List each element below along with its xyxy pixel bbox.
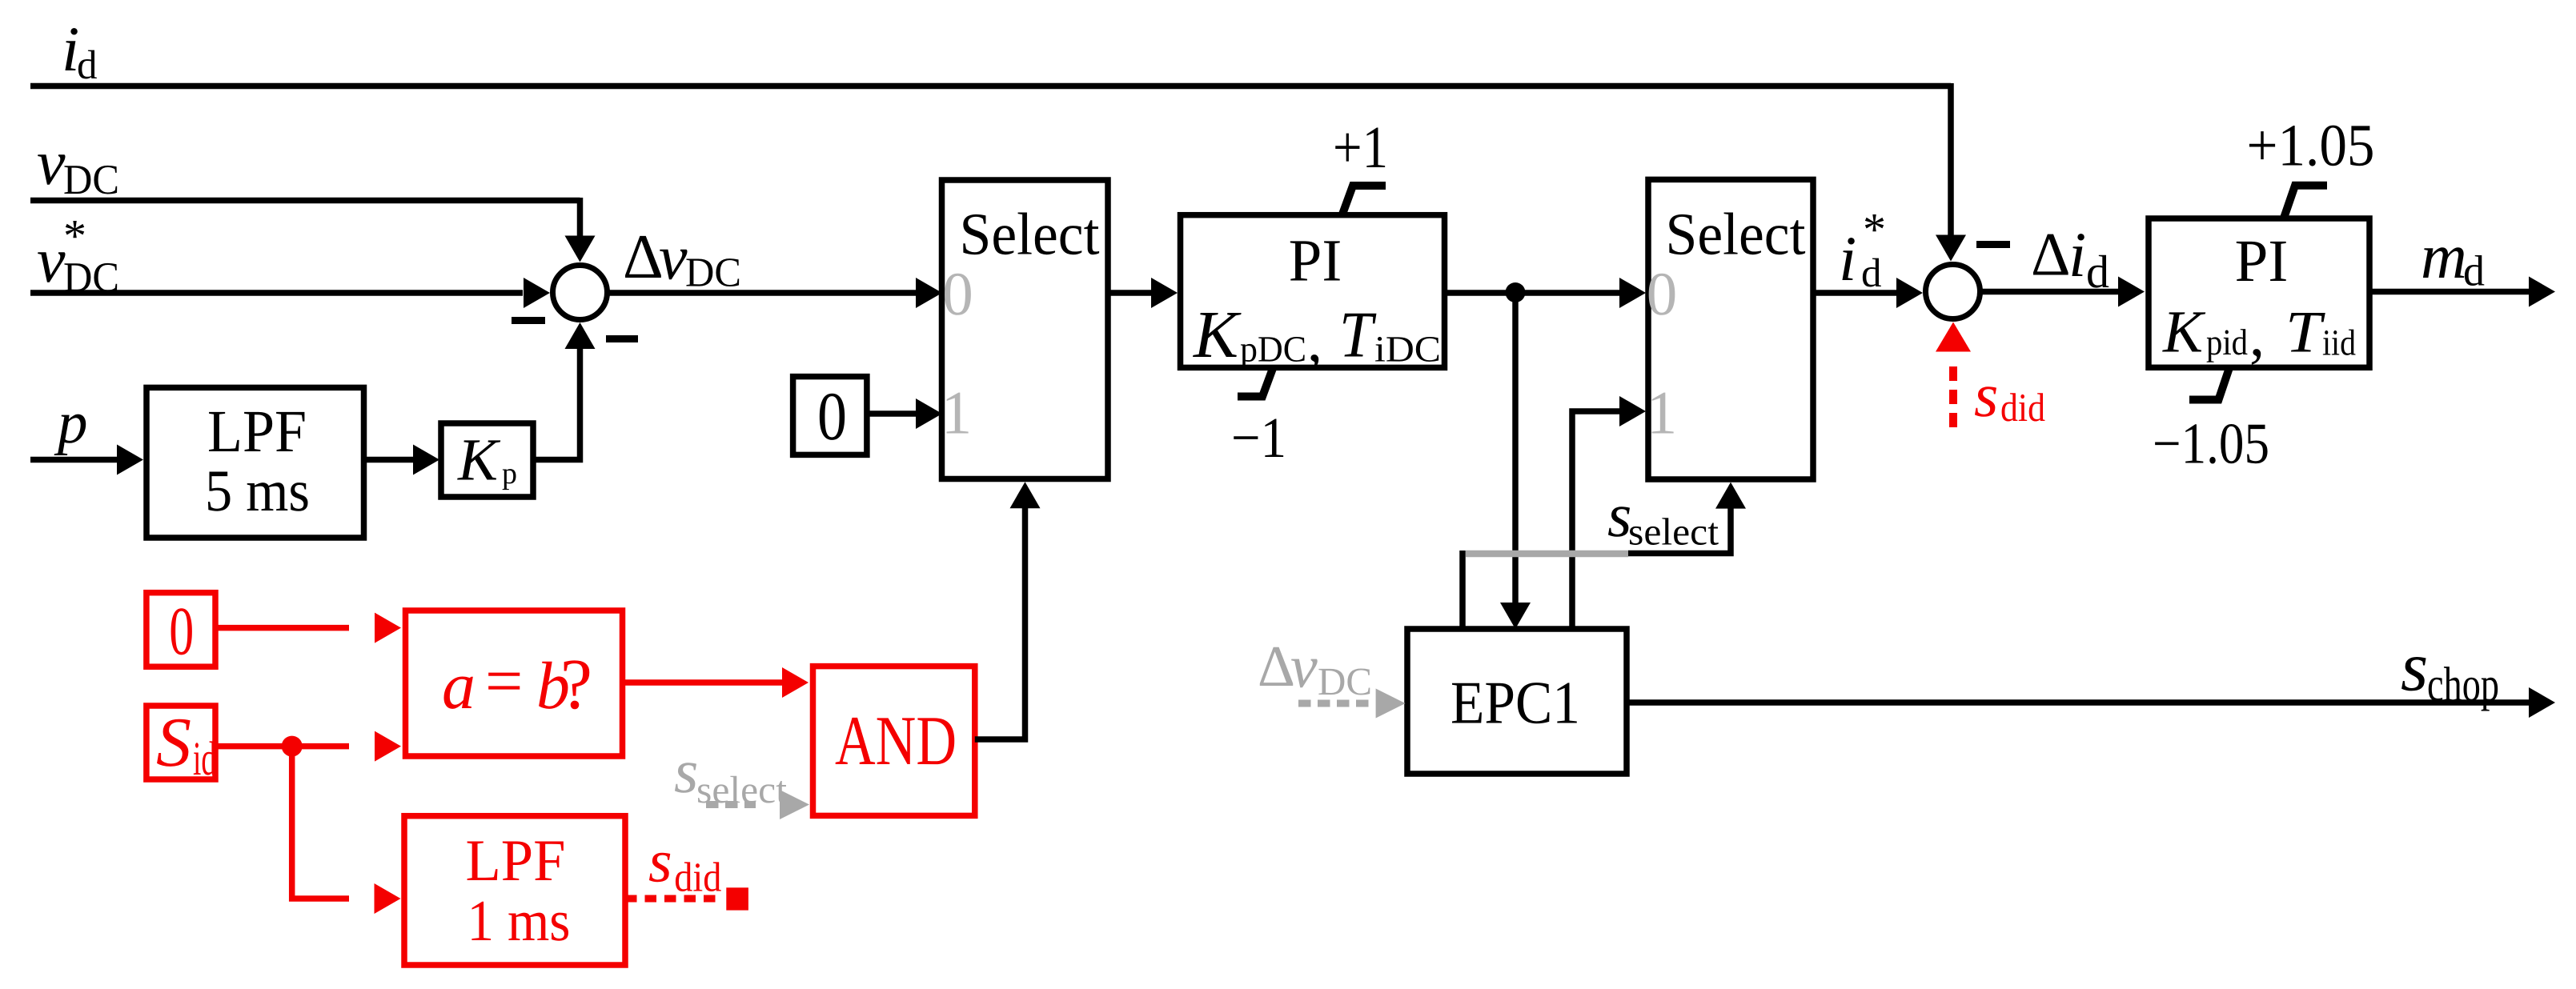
block red S_id xyxy=(146,704,216,785)
svg-text:d: d xyxy=(2463,247,2485,295)
wire: s_chop output line from EPC1 xyxy=(1627,687,2555,718)
label m_d xyxy=(2421,222,2485,295)
block red LPF2 (LPF 1 ms) xyxy=(404,816,625,965)
wire: s_select segment into Select2 control input xyxy=(1628,482,1746,554)
svg-text:DC: DC xyxy=(63,157,119,203)
wire: AND output up to Select1 control input xyxy=(975,482,1041,739)
minus sign at S1 left-bottom xyxy=(512,317,545,324)
wire red: constant 0 to comparator input a xyxy=(215,613,401,643)
svg-text:=: = xyxy=(485,644,523,719)
label -1 below PI1 xyxy=(1231,406,1286,470)
label p xyxy=(54,390,88,456)
svg-text:+1.05: +1.05 xyxy=(2247,113,2375,179)
svg-text:d: d xyxy=(1861,251,1882,296)
label +1.05 above PI2 xyxy=(2247,113,2375,179)
saturation symbol below PI1 xyxy=(1238,367,1274,397)
svg-text:Select: Select xyxy=(1666,202,1806,268)
svg-text:iid: iid xyxy=(2322,322,2356,363)
svg-text:pid: pid xyxy=(2206,322,2248,362)
svg-text:−1: −1 xyxy=(1231,406,1286,470)
svg-text:1: 1 xyxy=(1647,378,1678,447)
block EPC1 xyxy=(1407,629,1627,774)
svg-text:?: ? xyxy=(560,645,592,724)
svg-text:v: v xyxy=(1290,633,1318,700)
svg-text:Δ: Δ xyxy=(2031,220,2071,289)
svg-text:PI: PI xyxy=(2235,228,2289,294)
svg-text:0: 0 xyxy=(817,378,847,454)
block LPF1 (LPF 5 ms) xyxy=(146,387,364,538)
label red s_did at S2 xyxy=(1974,360,2045,430)
label gray 0 input of Select2 xyxy=(1647,259,1678,328)
block PI2 (PI with K_pid, T_iid) xyxy=(2149,218,2369,369)
svg-text:v: v xyxy=(37,226,66,296)
label s_chop xyxy=(2401,629,2499,712)
svg-text:0: 0 xyxy=(169,593,194,670)
svg-text:s: s xyxy=(674,736,698,806)
svg-text:,: , xyxy=(2249,302,2265,369)
svg-text:5 ms: 5 ms xyxy=(205,458,310,524)
wire red: junction down and into LPF2 xyxy=(292,747,401,914)
wire: v_DC* reference input line into S1 xyxy=(30,278,550,308)
junction node on PI1 output wire xyxy=(1506,282,1526,302)
svg-text:LPF: LPF xyxy=(207,398,307,465)
svg-text:*: * xyxy=(1863,203,1886,255)
svg-text:Select: Select xyxy=(960,202,1100,268)
wire: Select2 output to S2 xyxy=(1813,278,1923,308)
label gray Delta_v_DC at EPC1 input xyxy=(1258,633,1372,703)
label Delta_v_DC at S1 output xyxy=(623,222,741,295)
svg-text:select: select xyxy=(696,769,788,811)
svg-text:K: K xyxy=(2162,299,2206,366)
label red s_did at LPF2 output xyxy=(648,828,721,901)
label gray 0 input of Select1 xyxy=(942,259,973,328)
block red comparator a=b? xyxy=(406,611,623,756)
svg-text:id: id xyxy=(193,732,216,785)
red terminal square on s_did xyxy=(726,887,748,910)
svg-text:0: 0 xyxy=(1647,259,1678,328)
wire: LPF1 to Kp xyxy=(364,445,440,475)
label i_d xyxy=(62,14,98,88)
wire: p input line xyxy=(30,445,143,475)
block Select2 xyxy=(1648,179,1813,479)
svg-text:did: did xyxy=(2000,385,2045,430)
svg-text:p: p xyxy=(502,457,517,490)
wire: i_d input line across top, then down into summing junction S2 xyxy=(30,83,1966,262)
label gray 1 input of Select1 xyxy=(941,378,973,447)
svg-text:s: s xyxy=(2401,629,2428,707)
svg-text:1 ms: 1 ms xyxy=(467,888,571,953)
svg-text:DC: DC xyxy=(1318,659,1372,703)
minus sign at S2 top input xyxy=(1976,241,2010,248)
svg-text:m: m xyxy=(2421,222,2467,292)
svg-text:T: T xyxy=(2285,300,2325,366)
svg-text:chop: chop xyxy=(2427,658,2499,711)
block red constant 0 xyxy=(146,593,215,670)
wire: constant 0 to Select1 input 1 xyxy=(867,398,942,429)
red dashed arrow s_did into S2 bottom xyxy=(1936,322,1971,428)
wire: m_d output from PI2 xyxy=(2369,277,2555,307)
saturation symbol above PI1 xyxy=(1342,186,1386,215)
junction node red on S_id wire xyxy=(282,736,303,757)
wire: Delta_v_DC from S1 to Select1 input 0 xyxy=(608,278,943,308)
wire: s_select gray segment xyxy=(1466,551,1628,558)
svg-text:K: K xyxy=(457,427,501,494)
svg-text:pDC: pDC xyxy=(1240,328,1306,369)
svg-text:+1: +1 xyxy=(1333,114,1388,181)
svg-text:v: v xyxy=(37,128,66,198)
wire: s_select riser from EPC1 top xyxy=(1459,551,1466,629)
label i_d_star at Select2 output xyxy=(1839,203,1886,296)
wire: Select1 output to PI1 xyxy=(1108,278,1178,308)
svg-text:S: S xyxy=(156,704,191,782)
svg-text:did: did xyxy=(674,855,721,901)
svg-text:0: 0 xyxy=(942,259,973,328)
gray dashed arrow s_select into AND xyxy=(706,790,809,819)
svg-text:i: i xyxy=(1839,224,1856,294)
minus sign at S1 right-bottom xyxy=(606,335,638,342)
wire: junction down into EPC1 top xyxy=(1500,293,1531,630)
saturation symbol below PI2 xyxy=(2189,369,2229,400)
summing junction S1 xyxy=(553,266,608,320)
saturation symbol above PI2 xyxy=(2285,186,2328,217)
svg-text:s: s xyxy=(1974,360,1998,430)
svg-text:LPF: LPF xyxy=(466,828,566,894)
svg-text:i: i xyxy=(2068,220,2086,290)
block Select1 xyxy=(942,180,1109,479)
wire: v_DC input line, then down into summing junction S1 xyxy=(30,198,596,262)
svg-text:−1.05: −1.05 xyxy=(2153,411,2269,476)
block constant 0 xyxy=(793,377,867,455)
label +1 above PI1 xyxy=(1333,114,1388,181)
label -1.05 below PI2 xyxy=(2153,411,2269,476)
svg-text:1: 1 xyxy=(941,378,973,447)
svg-text:s: s xyxy=(648,828,672,895)
svg-text:*: * xyxy=(63,210,86,262)
svg-text:EPC1: EPC1 xyxy=(1451,669,1580,736)
label v_DC xyxy=(37,128,119,203)
svg-text:v: v xyxy=(659,223,688,294)
svg-text:DC: DC xyxy=(685,250,741,295)
wire red: comparator output to AND xyxy=(623,667,809,698)
label s_select near Select2 xyxy=(1607,480,1719,553)
gray dashed arrow Delta_v_DC into EPC1 left xyxy=(1298,689,1406,719)
svg-text:,: , xyxy=(1307,307,1322,374)
svg-text:Δ: Δ xyxy=(623,222,664,292)
wire red: S_id to comparator input b xyxy=(215,731,401,762)
svg-text:d: d xyxy=(77,43,98,88)
wire: EPC1 top output to Select2 input 1 xyxy=(1572,396,1646,629)
svg-text:PI: PI xyxy=(1289,227,1342,294)
red dashed wire s_did from LPF2 output xyxy=(625,895,721,903)
svg-text:p: p xyxy=(54,390,88,456)
svg-text:iDC: iDC xyxy=(1374,329,1441,370)
wire: PI1 output to Select2 input 0 xyxy=(1445,278,1647,308)
label gray s_select at AND xyxy=(674,736,788,811)
label gray 1 input of Select2 xyxy=(1647,378,1678,447)
block PI1 (PI with K_pDC, T_iDC) xyxy=(1181,215,1445,374)
label Delta_i_d at S2 output xyxy=(2031,220,2109,298)
svg-text:a: a xyxy=(442,649,475,723)
svg-text:AND: AND xyxy=(835,703,957,780)
svg-text:Δ: Δ xyxy=(1258,634,1295,699)
summing junction S2 xyxy=(1926,265,1980,319)
wire: S2 output to PI2 xyxy=(1980,277,2145,307)
svg-text:T: T xyxy=(1339,298,1377,371)
block Kp gain xyxy=(441,423,533,497)
svg-text:K: K xyxy=(1193,298,1242,372)
block red AND xyxy=(813,667,975,816)
wire: Kp to S1 negative input xyxy=(533,322,596,460)
label v_DC_star xyxy=(37,210,119,301)
svg-text:select: select xyxy=(1628,511,1719,553)
